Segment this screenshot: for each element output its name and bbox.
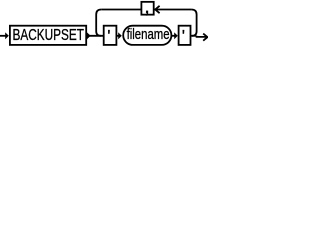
svg-text:BACKUPSET: BACKUPSET [13, 27, 85, 44]
wire: loop top arc right segment from separator box [154, 9, 191, 11]
arrowhead after BACKUPSET [87, 32, 91, 39]
wire: loop top arc left segment to separator box [101, 9, 141, 11]
quote box 2 [179, 26, 191, 45]
svg-text:,: , [144, 0, 150, 18]
wire: loop right riser with top corner and bottom fillet [191, 10, 196, 36]
arrowhead on loop arc pointing left (chevron) [155, 6, 159, 13]
wire: filename oval to quote box 2 [172, 35, 176, 37]
arrowhead before quote box 2 [174, 32, 178, 39]
separator box on loop arc [141, 2, 153, 15]
wire: quote box 1 to filename oval [117, 35, 120, 37]
wire: quote box 2 to exit corner [191, 35, 197, 37]
wire: main line BACKUPSET to quote box 1 [86, 35, 104, 37]
keyword box BACKUPSET [10, 26, 86, 45]
quote box 1 [104, 26, 117, 45]
wire: entry line [0, 35, 6, 37]
wire: loop left riser with bottom fillet and top corner [96, 10, 101, 36]
variable oval filename [123, 26, 171, 45]
arrowhead entry [5, 32, 9, 39]
svg-text:': ' [182, 26, 185, 45]
svg-text:filename: filename [127, 26, 170, 43]
arrowhead exit (chevron) [203, 34, 207, 41]
svg-text:': ' [107, 26, 110, 45]
wire: exit step-down segment [197, 36, 207, 37]
arrowhead before filename oval [118, 32, 122, 39]
